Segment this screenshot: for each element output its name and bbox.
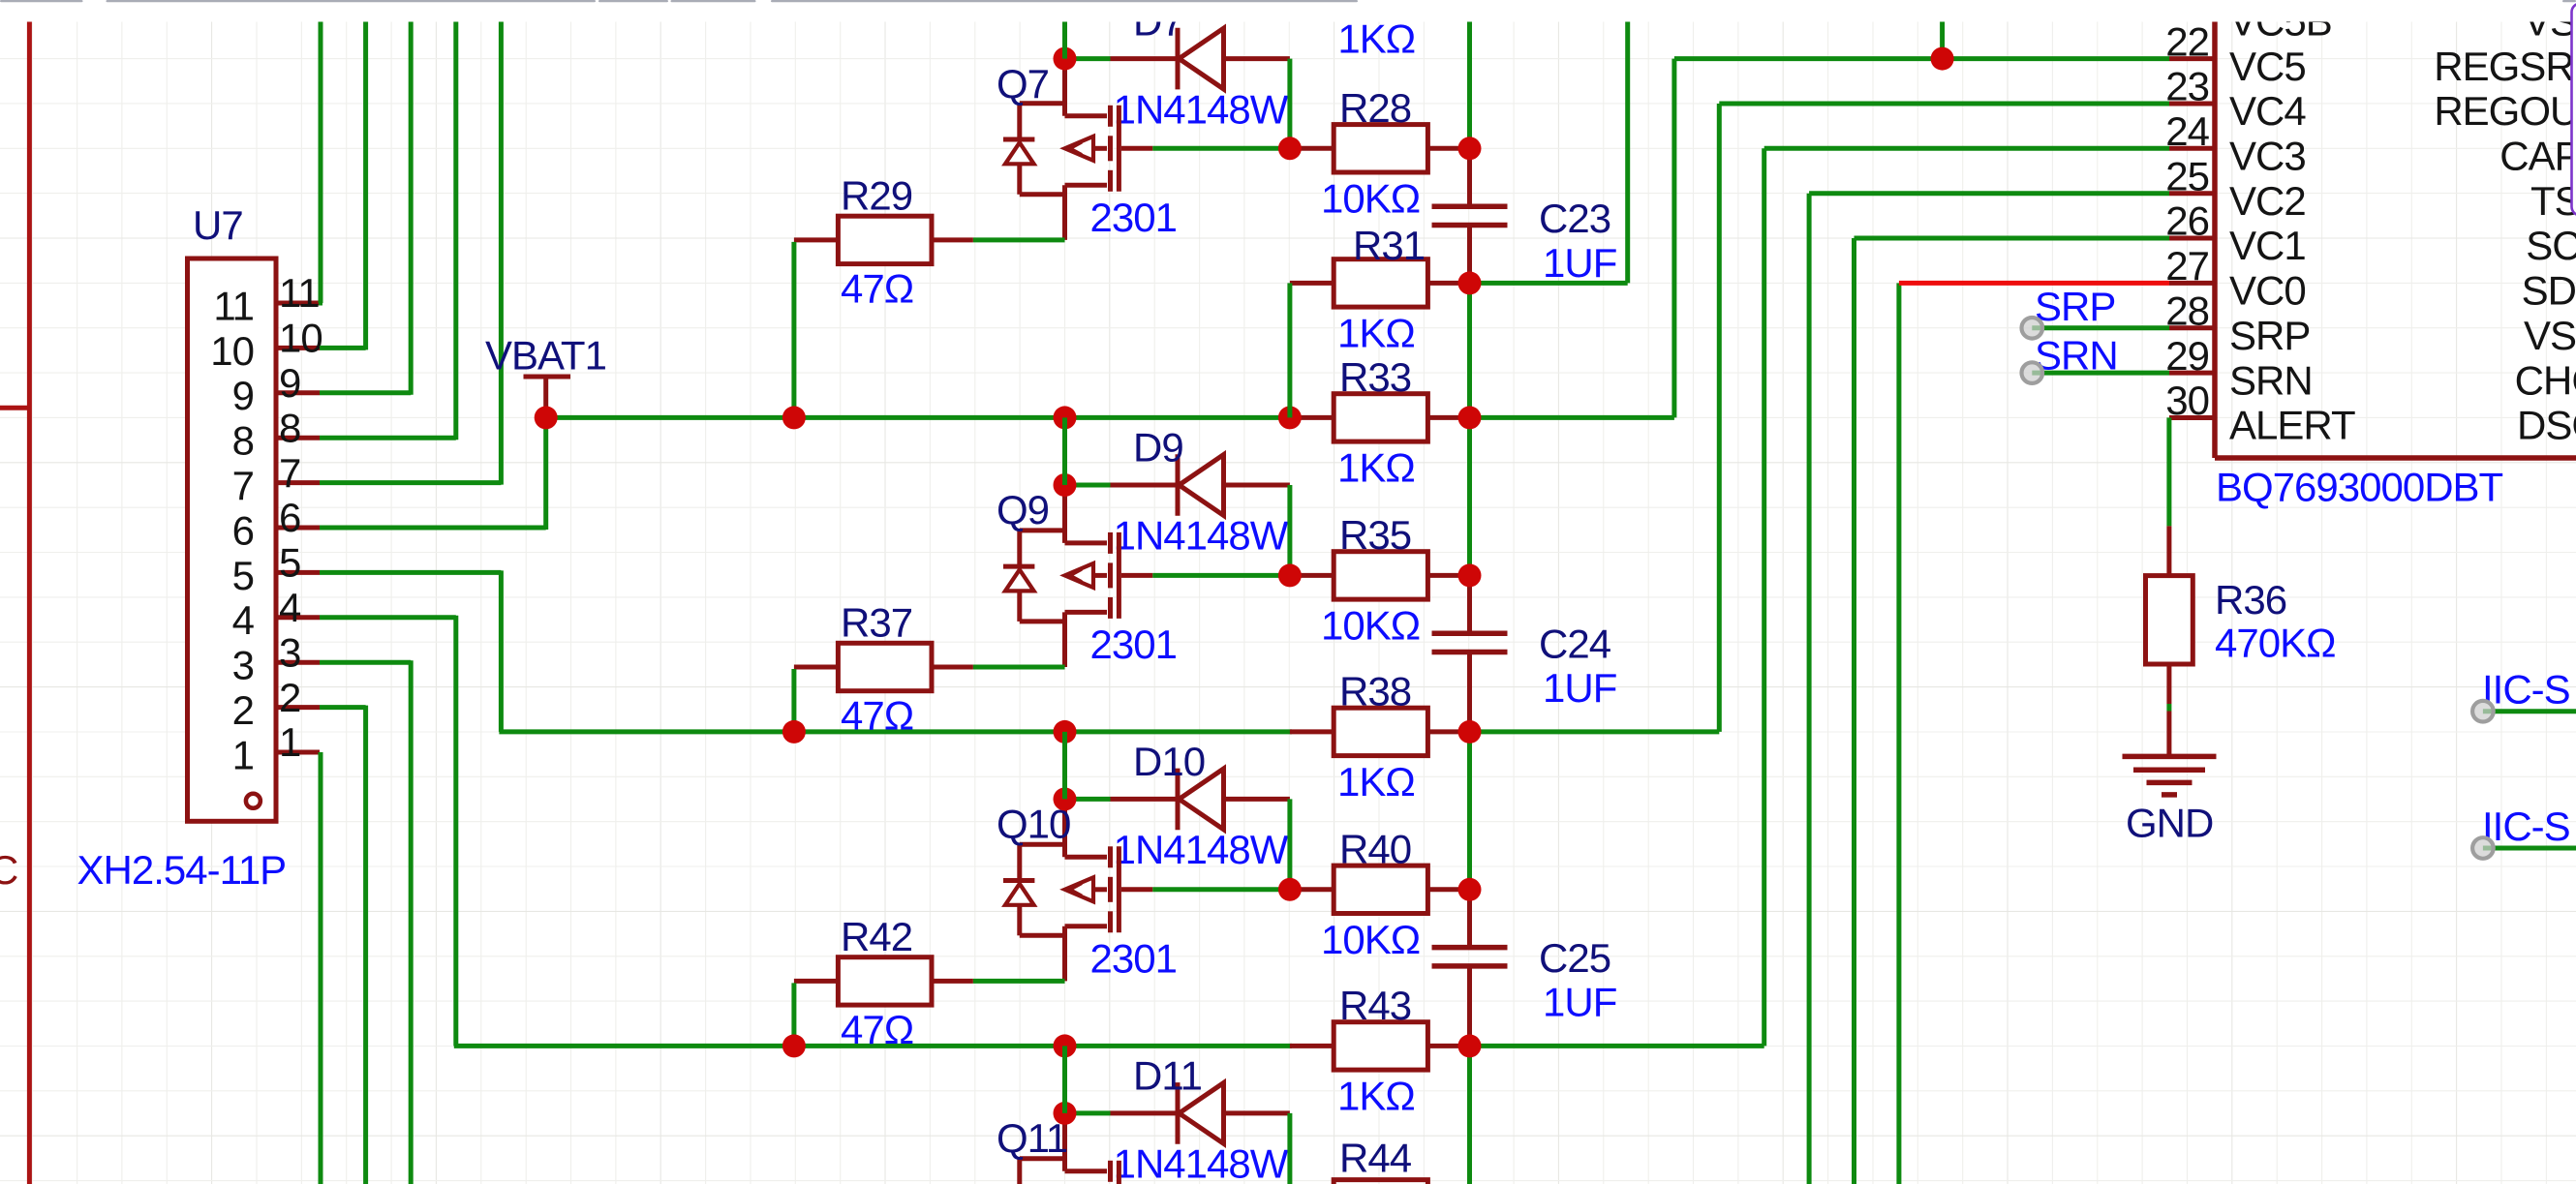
port circle IIC-S 2: [2472, 837, 2494, 859]
wire bus1 to VC5 riser: [1470, 415, 1674, 420]
resistor R35: [1334, 552, 1427, 599]
junction R33 right: [1458, 406, 1482, 429]
resistor R36 bottom lead: [2166, 664, 2171, 704]
wire ladder column top: [1467, 0, 1472, 148]
U7 pin 10 stub: [276, 346, 320, 350]
body diode of Q10: [1003, 878, 1034, 883]
body diode of Q9: [1003, 564, 1034, 569]
svg-text:Q7: Q7: [997, 61, 1049, 106]
svg-text:1N4148W: 1N4148W: [1114, 513, 1289, 559]
capacitor C24 bottom lead: [1467, 653, 1472, 732]
resistor R31 left stub: [1290, 281, 1334, 286]
svg-text:CHG: CHG: [2515, 357, 2576, 403]
wire column A bus1-D9: [1062, 417, 1067, 485]
resistor R36 top lead: [2166, 526, 2171, 575]
wire column A bus2-D10: [1062, 732, 1067, 800]
svg-text:Q9: Q9: [997, 487, 1049, 532]
junction Q9 gate node: [1278, 563, 1302, 587]
svg-text:25: 25: [2165, 153, 2209, 198]
transistor Q10 2301: [1062, 799, 1067, 857]
capacitor C25 top lead: [1467, 890, 1472, 948]
diode D9: [1111, 483, 1179, 488]
svg-text:VC0: VC0: [2229, 268, 2306, 314]
wire stub above VC5 junction: [1940, 0, 1945, 59]
svg-text:26: 26: [2165, 198, 2209, 244]
wire R29 left to bus: [791, 242, 796, 418]
IC pin 22 stub: [2169, 56, 2215, 61]
svg-text:2: 2: [232, 687, 254, 733]
svg-text:R42: R42: [841, 914, 912, 959]
IC pin 30 stub: [2169, 415, 2215, 420]
junction R42 tap: [782, 1034, 806, 1057]
wire bus2 middle: [794, 729, 1292, 734]
svg-text:SDA: SDA: [2522, 268, 2576, 314]
wire R42 to transistor: [973, 979, 1065, 984]
resistor R37 right lead: [932, 665, 973, 670]
svg-text:R29: R29: [841, 173, 912, 219]
svg-text:SRP: SRP: [2035, 284, 2115, 329]
resistor R42 left lead: [794, 979, 839, 984]
svg-text:C24: C24: [1539, 621, 1611, 666]
svg-text:9: 9: [232, 373, 254, 418]
svg-text:R36: R36: [2215, 577, 2286, 622]
wire U7 pin 2 down: [320, 705, 366, 710]
gate lead Q9: [1121, 573, 1152, 578]
capacitor C24 top lead: [1467, 575, 1472, 633]
svg-text:6: 6: [232, 507, 254, 553]
resistor R31: [1334, 259, 1427, 307]
svg-text:5: 5: [279, 540, 300, 586]
svg-text:1N4148W: 1N4148W: [1114, 827, 1289, 872]
svg-text:4: 4: [279, 585, 301, 630]
svg-text:1KΩ: 1KΩ: [1337, 311, 1415, 356]
transistor Q7 2301: [1062, 59, 1067, 116]
svg-text:3: 3: [279, 629, 300, 675]
svg-text:D11: D11: [1133, 1053, 1202, 1099]
svg-text:R40: R40: [1339, 827, 1411, 872]
resistor R38 right stub: [1427, 729, 1469, 734]
svg-text:470KΩ: 470KΩ: [2215, 620, 2336, 665]
junction R37 tap: [782, 720, 806, 744]
resistor R38 left stub: [1290, 729, 1334, 734]
IC pin 25 stub: [2169, 191, 2215, 196]
transistor Q9 2301: [1062, 485, 1067, 543]
wire bus2 segment right: [1470, 729, 1720, 734]
svg-text:SRN: SRN: [2229, 357, 2313, 403]
resistor R37: [838, 643, 932, 690]
U7 pin 9 stub: [276, 390, 320, 395]
wire U7 pin 4 to cell bus row 3: [320, 615, 456, 620]
U7 pin 8 stub: [276, 436, 320, 440]
U7 pin 4 stub: [276, 615, 320, 620]
resistor R29: [838, 216, 932, 263]
resistor R40: [1334, 865, 1427, 913]
capacitor C23 bottom lead: [1467, 226, 1472, 284]
junction VBAT bus col A: [1054, 406, 1077, 429]
svg-text:VC4: VC4: [2229, 88, 2306, 134]
junction D9 cathode node: [1054, 473, 1077, 497]
svg-text:1UF: 1UF: [1543, 240, 1616, 286]
wire riser VC0 (red net): [1896, 283, 1901, 1184]
svg-text:1UF: 1UF: [1543, 980, 1616, 1025]
IC pin 23 stub: [2169, 102, 2215, 106]
svg-text:1UF: 1UF: [1543, 665, 1616, 711]
ground GND symbol: [2123, 754, 2217, 760]
wire IIC-S 2: [2483, 846, 2576, 851]
svg-text:1KΩ: 1KΩ: [1337, 16, 1415, 62]
wire VBAT bus row: [546, 415, 1292, 420]
resistor R28 right stub: [1427, 146, 1469, 151]
svg-text:REGOUT: REGOUT: [2434, 88, 2576, 134]
capacitor C25: [1432, 945, 1508, 951]
wire ladder column R43: [1467, 1046, 1472, 1184]
transistor Q11 2301: [1062, 1113, 1067, 1171]
wire U7 pin 8 to top: [320, 436, 456, 440]
svg-text:XH2.54-11P: XH2.54-11P: [77, 847, 287, 893]
junction Q7 gate node: [1278, 137, 1302, 160]
svg-text:2301: 2301: [1090, 936, 1177, 982]
svg-text:27: 27: [2165, 243, 2209, 288]
wire ladder column R38: [1467, 732, 1472, 890]
wire IIC-S 1: [2483, 709, 2576, 713]
junction VBAT1: [535, 406, 558, 429]
wire bus3 middle: [794, 1044, 1292, 1048]
wire below R36: [2166, 704, 2171, 712]
svg-text:47Ω: 47Ω: [841, 1007, 913, 1052]
svg-text:8: 8: [279, 405, 300, 450]
wire R37 to transistor: [973, 665, 1065, 670]
port circle SRN: [2022, 362, 2043, 383]
resistor R28: [1334, 125, 1427, 172]
svg-text:D9: D9: [1133, 425, 1183, 471]
svg-text:VC2: VC2: [2229, 178, 2306, 224]
resistor R40 left stub: [1290, 887, 1334, 892]
svg-text:10: 10: [210, 328, 254, 374]
junction R38 right: [1458, 720, 1482, 744]
IC pin 26 stub: [2169, 236, 2215, 241]
svg-text:3: 3: [232, 643, 254, 688]
resistor R43: [1334, 1022, 1427, 1070]
svg-text:SRP: SRP: [2229, 313, 2310, 358]
wire ladder column R31-R33: [1467, 283, 1472, 575]
wire column A bus3-D11: [1062, 1046, 1067, 1113]
power flag VBAT1: [524, 375, 571, 379]
wire U7 pin 9 to top: [320, 390, 411, 395]
U7 pin 2 stub: [276, 705, 320, 710]
wire riser VC3: [1762, 148, 1766, 1046]
capacitor C23 top lead: [1467, 148, 1472, 206]
svg-text:30: 30: [2165, 378, 2209, 423]
U7 pin 6 stub: [276, 526, 320, 531]
resistor R40 right stub: [1427, 887, 1469, 892]
wire riser VC5: [1671, 59, 1676, 418]
junction D11 cathode node: [1054, 1102, 1077, 1125]
body diode of Q7: [1003, 137, 1034, 142]
wire R29 to transistor: [973, 237, 1065, 242]
junction Q10 gate node: [1278, 878, 1302, 901]
wire U7 pin 7 to top: [320, 480, 501, 485]
wire riser VC1: [1852, 238, 1856, 1184]
svg-text:29: 29: [2165, 333, 2209, 379]
svg-text:6: 6: [279, 495, 300, 540]
browser tab bar remnant: [0, 0, 83, 2]
wire column A top: [1062, 0, 1067, 59]
diode D7 lead green: [1065, 56, 1111, 61]
svg-text:VSS: VSS: [2524, 313, 2576, 358]
U7 pin 5 stub: [276, 570, 320, 575]
resistor R28 left stub: [1290, 146, 1334, 151]
wire stub at left edge: [0, 406, 29, 410]
junction bus3 col A: [1054, 1034, 1077, 1057]
svg-text:23: 23: [2165, 64, 2209, 109]
junction R35-C24: [1458, 563, 1482, 587]
ground lead: [2166, 712, 2171, 755]
svg-text:DSG: DSG: [2517, 403, 2576, 448]
resistor R44 (clipped at bottom): [1334, 1180, 1427, 1184]
capacitor C25 bottom lead: [1467, 966, 1472, 1047]
junction R40-C25: [1458, 878, 1482, 901]
junction VC5 wire: [1931, 47, 1954, 71]
svg-text:8: 8: [232, 418, 254, 464]
svg-text:28: 28: [2165, 288, 2209, 334]
svg-text:BQ7693000DBT: BQ7693000DBT: [2216, 465, 2503, 510]
diode D9 lead green: [1065, 483, 1111, 488]
capacitor C23: [1432, 203, 1508, 209]
resistor R42: [838, 957, 932, 1005]
wire bus3 segment right: [1470, 1044, 1764, 1048]
svg-text:10KΩ: 10KΩ: [1321, 176, 1420, 222]
resistor R35 left stub: [1290, 573, 1334, 578]
svg-text:5: 5: [232, 553, 254, 598]
svg-text:7: 7: [232, 463, 254, 508]
junction R29 tap: [782, 406, 806, 429]
wire U7 pin 3 down: [320, 660, 411, 665]
svg-text:U7: U7: [193, 202, 243, 248]
resistor R36: [2146, 576, 2193, 664]
net wire (red, clipped at left edge): [27, 0, 32, 1184]
wire riser VC2: [1807, 194, 1812, 1184]
svg-text:R28: R28: [1339, 85, 1411, 131]
junction R28-C23: [1458, 137, 1482, 160]
wire D9 anode to gate node: [1287, 485, 1292, 575]
diode D10 lead green: [1065, 797, 1111, 802]
svg-text:1KΩ: 1KΩ: [1337, 445, 1415, 491]
svg-text:1KΩ: 1KΩ: [1337, 1074, 1415, 1119]
resistor R29 right lead: [932, 237, 973, 242]
wire U7 pin 5 to cell bus row 2: [320, 570, 501, 575]
junction D7 cathode node: [1054, 47, 1077, 71]
IC pin 27 stub: [2169, 281, 2215, 286]
white band above canvas: [0, 0, 2576, 22]
resistor R38: [1334, 708, 1427, 755]
U7 pin 11 stub: [276, 301, 320, 306]
svg-text:10: 10: [279, 316, 322, 361]
svg-text:IIC-S: IIC-S: [2482, 804, 2570, 849]
svg-text:11: 11: [279, 270, 320, 316]
svg-text:D10: D10: [1133, 739, 1205, 784]
svg-text:1KΩ: 1KΩ: [1337, 759, 1415, 805]
wire U7 pin 10 to top: [320, 346, 366, 350]
IC pin 28 stub: [2169, 325, 2215, 330]
wire R42 left to bus: [791, 983, 796, 1046]
svg-text:R38: R38: [1339, 669, 1411, 714]
svg-text:VBAT1: VBAT1: [485, 333, 606, 379]
resistor R37 left lead: [794, 665, 839, 670]
svg-text:2301: 2301: [1090, 622, 1177, 667]
svg-text:R35: R35: [1339, 512, 1411, 558]
wire D10 anode to gate node: [1287, 799, 1292, 889]
junction D10 cathode node: [1054, 787, 1077, 810]
resistor R33: [1334, 394, 1427, 441]
IC U? BQ7693000DBT body: [2212, 0, 2218, 458]
svg-text:CAP1: CAP1: [2499, 134, 2576, 179]
svg-text:VC5: VC5: [2229, 44, 2306, 89]
svg-text:TS1: TS1: [2530, 178, 2576, 224]
junction R33 left: [1278, 406, 1302, 429]
svg-text:C23: C23: [1539, 196, 1610, 241]
IC pin 24 stub: [2169, 146, 2215, 151]
svg-text:SRN: SRN: [2035, 333, 2118, 379]
svg-text:10KΩ: 10KΩ: [1321, 917, 1420, 962]
svg-text:24: 24: [2165, 108, 2209, 154]
wire SRP: [2032, 325, 2169, 330]
U7 pin 3 stub: [276, 660, 320, 665]
U7 pin 7 stub: [276, 480, 320, 485]
U7 pin 1 stub: [276, 750, 320, 755]
wire SRN: [2032, 371, 2169, 376]
svg-text:4: 4: [232, 597, 255, 643]
svg-text:R33: R33: [1339, 354, 1411, 400]
svg-text:R31: R31: [1353, 223, 1425, 268]
svg-text:R37: R37: [841, 600, 912, 646]
svg-text:47Ω: 47Ω: [841, 266, 913, 312]
svg-text:2301: 2301: [1090, 195, 1177, 240]
connector U7 XH2.54-11P: [188, 258, 277, 821]
svg-text:22: 22: [2165, 18, 2209, 64]
connector U7 polarity circle: [246, 794, 261, 808]
resistor R43 left stub: [1290, 1044, 1334, 1048]
svg-text:ALERT: ALERT: [2229, 403, 2355, 448]
capacitor C24: [1432, 630, 1508, 636]
svg-text:10KΩ: 10KΩ: [1321, 603, 1420, 649]
resistor R42 right lead: [932, 979, 973, 984]
floating panel with purple border at right edge: [2572, 4, 2576, 216]
wire U7 pin 1 down: [319, 752, 323, 1184]
resistor R33 right stub: [1427, 415, 1469, 420]
svg-text:R43: R43: [1339, 983, 1411, 1028]
svg-text:C: C: [0, 847, 17, 893]
IC pin 29 stub: [2169, 371, 2215, 376]
wire ALERT down: [2166, 417, 2171, 526]
svg-text:REGSRC: REGSRC: [2434, 44, 2576, 89]
wire U7 pin 11 to top: [319, 0, 323, 303]
junction bus2 col A: [1054, 720, 1077, 744]
svg-text:1: 1: [279, 719, 300, 765]
diode D11 lead green: [1065, 1110, 1111, 1115]
svg-text:VC1: VC1: [2229, 223, 2306, 268]
wire D11 anode to gate node: [1287, 1113, 1292, 1184]
svg-text:C25: C25: [1539, 935, 1610, 981]
gate lead Q7: [1121, 146, 1152, 151]
resistor R29 left lead: [794, 237, 839, 242]
svg-text:1N4148W: 1N4148W: [1114, 1141, 1289, 1184]
gate lead Q10: [1121, 887, 1152, 892]
wire column B R31 to bus1: [1287, 283, 1292, 417]
wire D7 anode to gate node: [1287, 59, 1292, 149]
diode D11: [1111, 1110, 1179, 1115]
resistor R43 right stub: [1427, 1044, 1469, 1048]
svg-text:VC3: VC3: [2229, 134, 2306, 179]
junction R31-C23: [1458, 271, 1482, 294]
svg-text:1N4148W: 1N4148W: [1114, 86, 1289, 132]
diode D10: [1111, 797, 1179, 802]
svg-text:IIC-S: IIC-S: [2482, 667, 2570, 713]
svg-text:Q11: Q11: [997, 1115, 1067, 1161]
wire riser VC4: [1717, 104, 1722, 732]
resistor R35 right stub: [1427, 573, 1469, 578]
port circle SRP: [2022, 318, 2043, 339]
wire U7 pin 6 to VBAT1 node: [320, 526, 546, 531]
junction R43 right: [1458, 1034, 1482, 1057]
svg-text:SCL: SCL: [2526, 223, 2576, 268]
svg-text:7: 7: [279, 450, 300, 496]
svg-text:11: 11: [213, 283, 254, 328]
resistor R31 right stub: [1427, 281, 1469, 286]
svg-text:2: 2: [279, 675, 300, 720]
resistor R33 left stub: [1290, 415, 1334, 420]
svg-text:R44: R44: [1339, 1136, 1412, 1181]
wire R37 left to bus: [791, 669, 796, 732]
port circle IIC-S 1: [2472, 701, 2494, 722]
wire R31 net riser: [1470, 281, 1628, 286]
diode D7: [1111, 56, 1179, 61]
svg-text:1: 1: [232, 732, 254, 777]
svg-text:47Ω: 47Ω: [841, 693, 913, 739]
svg-text:9: 9: [279, 360, 300, 406]
svg-text:GND: GND: [2126, 801, 2213, 846]
